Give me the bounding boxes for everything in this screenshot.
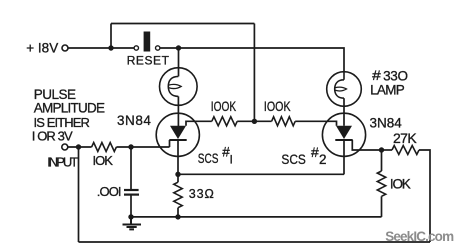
svg-text:27K: 27K	[393, 130, 417, 146]
junction dot: SCS2 gate / 27K / 10K node	[379, 147, 384, 152]
svg-text:33Ω: 33Ω	[189, 187, 215, 201]
wire: top rail drop to 100K midpoint	[253, 24, 255, 122]
SCS2 cathode gate lead	[352, 140, 381, 150]
svg-text:RESET: RESET	[127, 53, 170, 67]
wire: +18V terminal to left switch contact	[68, 47, 134, 49]
SCS1 body circle	[156, 113, 199, 156]
SCS2 cathode bar	[335, 139, 352, 141]
wire: R2 to SCS2 anode gate	[295, 121, 336, 126]
SCS1 cathode gate step to bar	[169, 140, 171, 147]
capacitor C1 .001 top plate	[124, 189, 139, 191]
resistor R2 100K	[272, 117, 296, 126]
wire: 10K bottom to ground rail	[381, 196, 383, 217]
SCS2 thyristor triangle	[336, 126, 352, 139]
wire: input terminal to 10K	[68, 146, 92, 148]
svg-text:#: #	[311, 144, 319, 160]
SCS2 cathode lead	[343, 140, 345, 174]
lamp L1 envelope	[160, 68, 198, 106]
INPUT terminal	[62, 144, 68, 150]
wire: gate node to 27K	[382, 149, 393, 151]
pushbutton RESET actuator bar	[144, 32, 151, 52]
wire: R1 to R2	[237, 120, 271, 122]
svg-text:PULSE: PULSE	[34, 87, 76, 102]
svg-text:INPUT: INPUT	[47, 154, 78, 169]
svg-text:#: #	[372, 69, 382, 84]
wire: top rail	[111, 23, 254, 25]
pushbutton RESET left contact	[134, 46, 138, 50]
capacitor C1 bottom plate	[124, 194, 139, 196]
resistor 10K (input)	[92, 143, 117, 152]
svg-text:.OOI: .OOI	[97, 184, 121, 199]
junction dot: +18V rail tap	[108, 45, 113, 50]
ground symbol	[123, 217, 142, 230]
wire: SCS1 cathode node to SCS2 cathode	[178, 173, 344, 175]
svg-text:SCS: SCS	[281, 151, 306, 167]
wire: 10K to SCS1 cathode gate	[116, 146, 169, 148]
SCS1 anode gate lead	[186, 121, 212, 126]
+18V supply terminal	[62, 45, 68, 51]
SCS1 cathode bar	[169, 139, 186, 141]
wire: gate node down to 10K	[381, 150, 383, 171]
svg-text:IOOK: IOOK	[264, 99, 291, 115]
svg-text:+ I8V: + I8V	[26, 40, 58, 55]
svg-text:I OR 3V: I OR 3V	[32, 128, 73, 143]
junction dot: 33 ohm / rail 1	[175, 214, 180, 219]
resistor 27K	[392, 146, 419, 155]
resistor 10K (right)	[377, 171, 385, 196]
wire: 33 ohm to ground rail	[177, 208, 179, 217]
svg-text:3N84: 3N84	[370, 115, 403, 130]
lamp L2 filament	[335, 72, 344, 98]
lamp L2 envelope	[327, 72, 362, 107]
svg-text:2: 2	[319, 152, 327, 167]
wire: 27K to right rail	[419, 150, 430, 242]
wire: C1 to ground rail	[130, 196, 132, 217]
svg-text:IOK: IOK	[390, 177, 411, 192]
junction dot: 100K midpoint to top rail	[252, 119, 257, 124]
wire: switch to lamp L2 branch corner	[160, 48, 344, 72]
svg-text:AMPLITUDE: AMPLITUDE	[34, 101, 105, 116]
svg-text:IOOK: IOOK	[211, 98, 236, 114]
svg-text:LAMP: LAMP	[370, 83, 405, 98]
SCS1 thyristor triangle	[170, 126, 186, 139]
wire: junction down to lamp L1	[178, 48, 180, 76]
SCS1 cathode lead	[177, 140, 179, 174]
resistor 33 ohm	[174, 182, 182, 208]
wire: cap tap down to C1	[130, 147, 132, 189]
wire: input riser down to bottom return rail	[78, 147, 80, 242]
wire: lamp L1 to SCS1 anode	[177, 96, 179, 126]
resistor R1 100K	[212, 117, 237, 126]
pushbutton RESET right contact	[156, 46, 160, 50]
svg-text:33O: 33O	[383, 68, 408, 83]
junction dot: lamp L1 branch	[176, 45, 181, 50]
wire: bottom return rail	[79, 241, 431, 243]
wire: cathode node to 33 ohm	[177, 174, 179, 182]
svg-text:SCS: SCS	[198, 150, 219, 166]
junction dot: SCS1 cathode node	[175, 172, 180, 177]
svg-text:IOK: IOK	[93, 153, 114, 168]
wire: lamp L2 to SCS2 anode	[343, 98, 345, 126]
lamp L1 filament	[168, 76, 178, 96]
wire: ground rail (C1 to 10K bottom)	[131, 216, 382, 218]
svg-text:I: I	[230, 153, 233, 167]
junction dot: capacitor tap	[128, 144, 133, 149]
junction dot: input to bottom return	[76, 144, 81, 149]
svg-text:SeekIC.com: SeekIC.com	[385, 229, 454, 244]
wire: riser from +18V line to top rail	[110, 24, 112, 49]
junction dot: C1 / rail 1	[128, 214, 133, 219]
svg-text:3N84: 3N84	[117, 113, 151, 128]
SCS2 body circle	[322, 113, 365, 156]
